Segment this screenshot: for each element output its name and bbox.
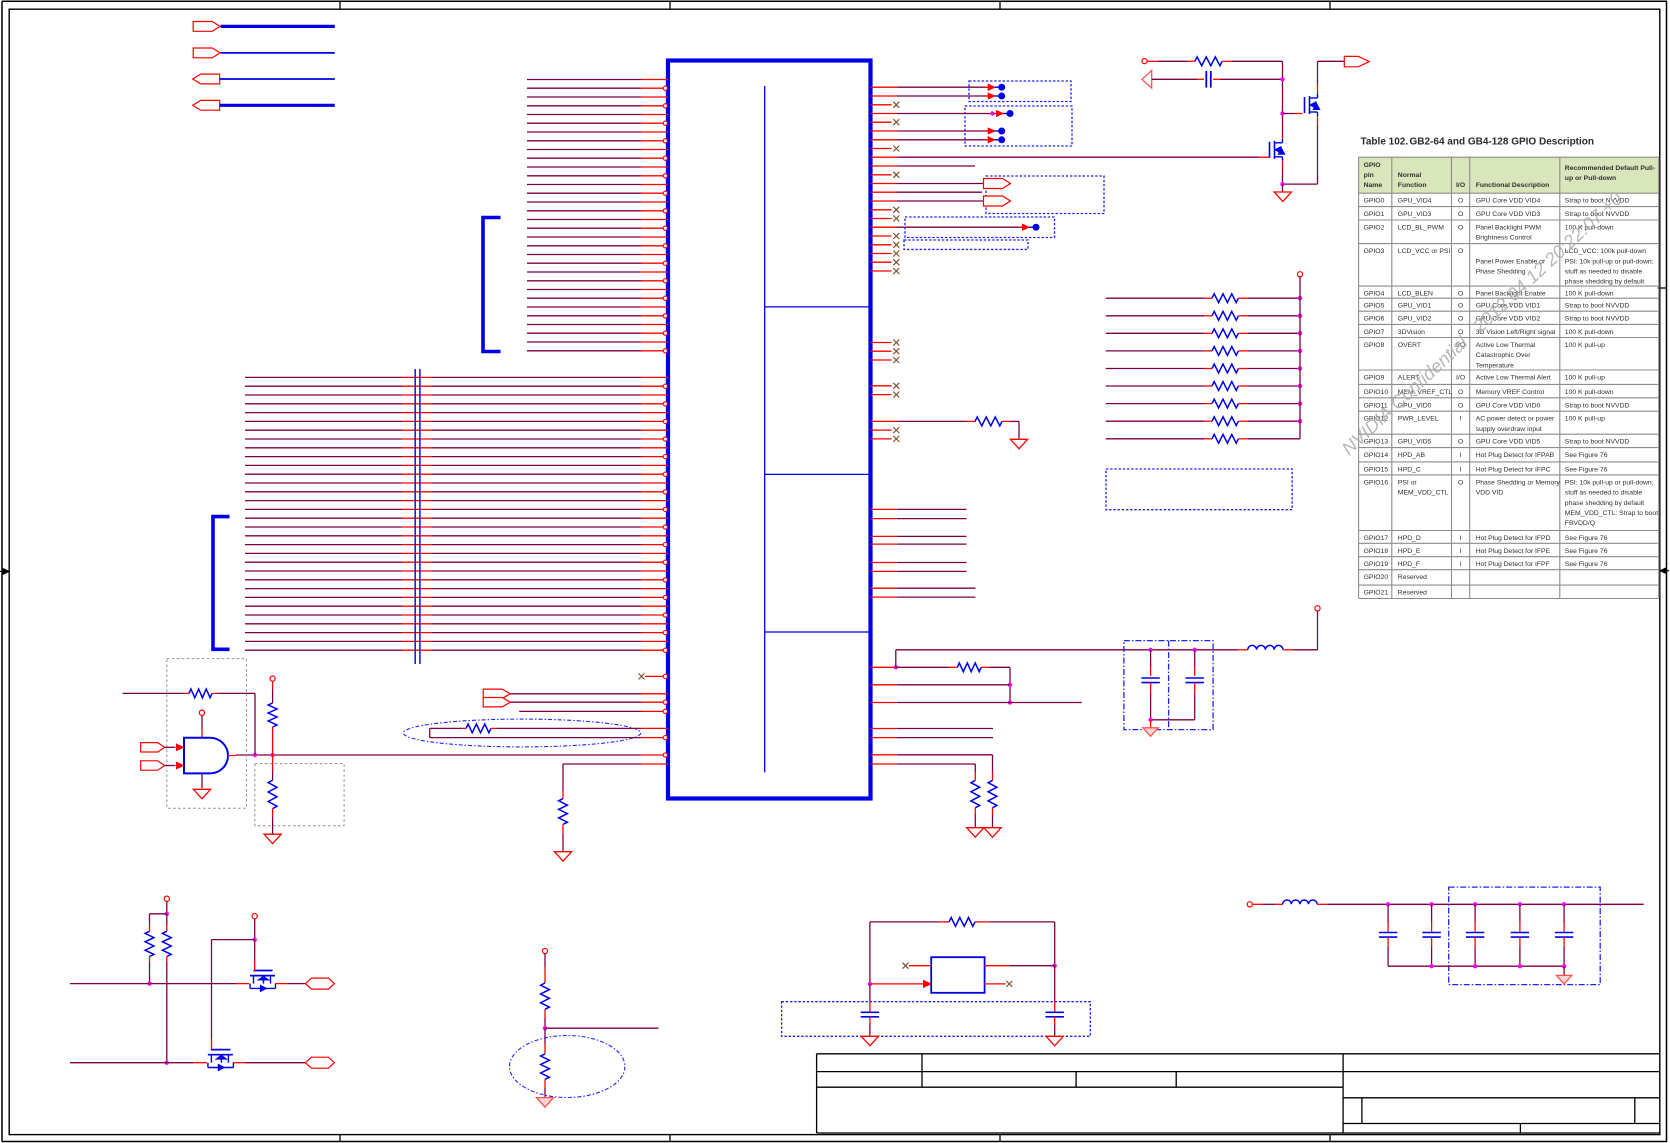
svg-text:Hot Plug Detect for IFPC: Hot Plug Detect for IFPC	[1476, 466, 1551, 473]
svg-text:Strap to boot NVVDD: Strap to boot NVVDD	[1565, 303, 1630, 310]
svg-text:O: O	[1458, 225, 1463, 232]
svg-text:100 K pull-up: 100 K pull-up	[1565, 375, 1605, 382]
svg-text:GPU_VID4: GPU_VID4	[1398, 198, 1432, 205]
svg-text:GPIO0: GPIO0	[1364, 198, 1385, 205]
svg-text:Catastrophic Over: Catastrophic Over	[1476, 352, 1532, 359]
svg-text:GPIO2: GPIO2	[1364, 225, 1385, 232]
svg-text:GPIO8: GPIO8	[1364, 342, 1385, 349]
svg-text:GPIO3: GPIO3	[1364, 248, 1385, 255]
svg-text:Active Low Thermal: Active Low Thermal	[1476, 342, 1536, 349]
svg-text:LCD_BL_PWM: LCD_BL_PWM	[1398, 225, 1444, 232]
svg-text:LCD_BLEN: LCD_BLEN	[1398, 291, 1433, 298]
svg-text:GPIO21: GPIO21	[1364, 590, 1389, 597]
svg-text:GB2-64 and GB4-128 GPIO Descri: GB2-64 and GB4-128 GPIO Description	[1410, 136, 1595, 147]
svg-text:Function: Function	[1398, 182, 1427, 189]
svg-text:GPIO5: GPIO5	[1364, 303, 1385, 310]
svg-text:I: I	[1460, 466, 1462, 473]
svg-text:GPIO: GPIO	[1364, 162, 1381, 169]
svg-text:GPU_VID2: GPU_VID2	[1398, 316, 1432, 323]
svg-text:up or Pull-down: up or Pull-down	[1565, 175, 1616, 182]
svg-text:100 K pull-up: 100 K pull-up	[1565, 416, 1605, 423]
svg-text:100 K pull-down: 100 K pull-down	[1565, 291, 1614, 298]
svg-text:GPIO15: GPIO15	[1364, 466, 1389, 473]
svg-text:See Figure 76: See Figure 76	[1565, 535, 1608, 542]
svg-text:I/O: I/O	[1456, 182, 1465, 189]
svg-text:Brightness Control: Brightness Control	[1476, 235, 1532, 242]
svg-text:GPU Core VDD VID4: GPU Core VDD VID4	[1476, 198, 1541, 205]
svg-text:GPIO17: GPIO17	[1364, 535, 1389, 542]
svg-text:3DVision: 3DVision	[1398, 329, 1425, 336]
svg-text:HPD_AB: HPD_AB	[1398, 452, 1426, 459]
svg-text:pin: pin	[1364, 172, 1374, 179]
svg-text:HPD_C: HPD_C	[1398, 466, 1421, 473]
svg-text:GPIO16: GPIO16	[1364, 479, 1389, 486]
svg-text:HPD_D: HPD_D	[1398, 535, 1421, 542]
svg-text:I: I	[1460, 535, 1462, 542]
svg-text:GPU Core VDD VID0: GPU Core VDD VID0	[1476, 402, 1541, 409]
svg-text:Table 102.: Table 102.	[1361, 136, 1409, 147]
svg-text:GPU_VID1: GPU_VID1	[1398, 303, 1432, 310]
svg-text:Temperature: Temperature	[1476, 362, 1514, 369]
svg-text:MEM_VDD_CTL: Strap to boot: MEM_VDD_CTL: Strap to boot	[1565, 510, 1658, 517]
svg-text:I: I	[1460, 548, 1462, 555]
svg-text:supply overdraw input: supply overdraw input	[1476, 426, 1542, 433]
svg-text:Active Low Thermal Alert: Active Low Thermal Alert	[1476, 375, 1551, 382]
svg-text:GPU Core VDD VID5: GPU Core VDD VID5	[1476, 439, 1541, 446]
svg-text:I/O: I/O	[1456, 375, 1465, 382]
svg-text:Name: Name	[1364, 182, 1383, 189]
svg-text:GPIO9: GPIO9	[1364, 375, 1385, 382]
svg-text:HPD_F: HPD_F	[1398, 561, 1420, 568]
svg-text:Panel Backlight PWM: Panel Backlight PWM	[1476, 225, 1542, 232]
svg-text:MEM_VDD_CTL: MEM_VDD_CTL	[1398, 490, 1449, 497]
svg-text:OVERT: OVERT	[1398, 342, 1421, 349]
svg-text:See Figure 76: See Figure 76	[1565, 466, 1608, 473]
svg-text:Strap to boot NVVDD: Strap to boot NVVDD	[1565, 439, 1630, 446]
svg-text:Hot Plug Detect for IFPE: Hot Plug Detect for IFPE	[1476, 548, 1551, 555]
svg-text:I: I	[1460, 416, 1462, 423]
svg-text:O: O	[1458, 303, 1463, 310]
svg-text:O: O	[1458, 316, 1463, 323]
svg-text:I: I	[1460, 452, 1462, 459]
svg-text:phase shedding by default: phase shedding by default	[1565, 500, 1644, 507]
svg-text:O: O	[1458, 198, 1463, 205]
svg-text:GPIO19: GPIO19	[1364, 561, 1389, 568]
svg-text:Reserved: Reserved	[1398, 590, 1427, 597]
svg-text:Strap to boot NVVDD: Strap to boot NVVDD	[1565, 316, 1630, 323]
svg-text:GPIO10: GPIO10	[1364, 389, 1389, 396]
svg-text:Phase Shedding or Memory: Phase Shedding or Memory	[1476, 479, 1561, 486]
svg-text:O: O	[1458, 248, 1463, 255]
svg-text:VDD VID: VDD VID	[1476, 490, 1504, 497]
svg-text:Hot Plug Detect for IFPD: Hot Plug Detect for IFPD	[1476, 535, 1551, 542]
svg-text:O: O	[1458, 479, 1463, 486]
svg-text:PSI: 10k pull-up or pull-down;: PSI: 10k pull-up or pull-down;	[1565, 258, 1654, 265]
svg-text:GPIO6: GPIO6	[1364, 316, 1385, 323]
svg-text:AC power detect or power: AC power detect or power	[1476, 416, 1555, 423]
svg-text:GPIO20: GPIO20	[1364, 574, 1389, 581]
svg-text:GPIO1: GPIO1	[1364, 211, 1385, 218]
svg-text:Recommended Default Pull-: Recommended Default Pull-	[1565, 165, 1655, 172]
svg-text:See Figure 76: See Figure 76	[1565, 548, 1608, 555]
svg-text:LCD_VCC: 100k pull-down: LCD_VCC: 100k pull-down	[1565, 248, 1646, 255]
svg-text:Reserved: Reserved	[1398, 574, 1427, 581]
svg-text:Hot Plug Detect for IFPAB: Hot Plug Detect for IFPAB	[1476, 452, 1555, 459]
svg-text:Functional Description: Functional Description	[1476, 182, 1550, 189]
svg-text:PSI or: PSI or	[1398, 479, 1418, 486]
svg-text:GPU Core VDD VID3: GPU Core VDD VID3	[1476, 211, 1541, 218]
svg-text:stuff as needed to disable: stuff as needed to disable	[1565, 490, 1643, 497]
svg-text:PWR_LEVEL: PWR_LEVEL	[1398, 416, 1439, 423]
svg-text:GPIO7: GPIO7	[1364, 329, 1385, 336]
svg-text:O: O	[1458, 389, 1463, 396]
svg-text:Strap to boot NVVDD: Strap to boot NVVDD	[1565, 402, 1630, 409]
svg-text:GPU_VID5: GPU_VID5	[1398, 439, 1432, 446]
svg-text:GPIO4: GPIO4	[1364, 291, 1385, 298]
svg-text:100 K pull-down: 100 K pull-down	[1565, 389, 1614, 396]
svg-text:LCD_VCC or PSI: LCD_VCC or PSI	[1398, 248, 1451, 255]
svg-text:phase shedding by default: phase shedding by default	[1565, 279, 1644, 286]
svg-text:O: O	[1458, 211, 1463, 218]
svg-text:O: O	[1458, 402, 1463, 409]
svg-text:See Figure 76: See Figure 76	[1565, 452, 1608, 459]
svg-text:PSI: 10k pull-up or pull-down;: PSI: 10k pull-up or pull-down;	[1565, 479, 1654, 486]
svg-text:I: I	[1460, 561, 1462, 568]
svg-text:Hot Plug Detect for IFPF: Hot Plug Detect for IFPF	[1476, 561, 1550, 568]
svg-text:GPU_VID3: GPU_VID3	[1398, 211, 1432, 218]
svg-text:stuff as needed to disable: stuff as needed to disable	[1565, 269, 1643, 276]
svg-text:HPD_E: HPD_E	[1398, 548, 1421, 555]
svg-text:100 K pull-up: 100 K pull-up	[1565, 342, 1605, 349]
svg-text:Memory VREF Control: Memory VREF Control	[1476, 389, 1545, 396]
svg-text:GPIO14: GPIO14	[1364, 452, 1389, 459]
svg-text:O: O	[1458, 439, 1463, 446]
svg-text:100 K pull-down: 100 K pull-down	[1565, 329, 1614, 336]
svg-text:FBVDD/Q: FBVDD/Q	[1565, 520, 1595, 527]
svg-text:GPIO18: GPIO18	[1364, 548, 1389, 555]
svg-text:Normal: Normal	[1398, 172, 1422, 179]
svg-text:See Figure 76: See Figure 76	[1565, 561, 1608, 568]
svg-text:O: O	[1458, 291, 1463, 298]
